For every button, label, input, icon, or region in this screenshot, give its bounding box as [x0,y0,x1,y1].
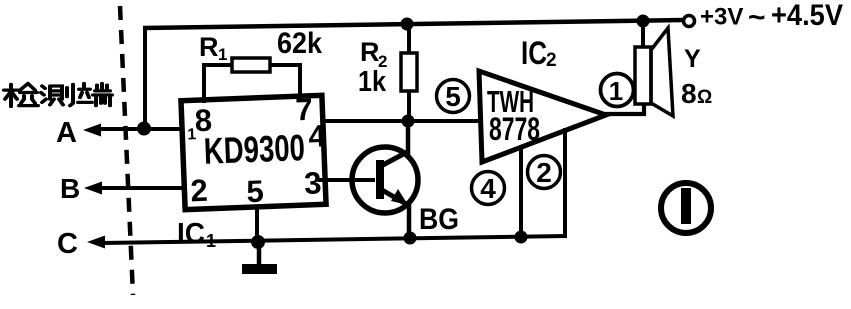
svg-text:4: 4 [308,118,327,154]
端 [78,84,92,103]
label 8 ohm [681,78,712,109]
IC U1 KD9300 body [181,91,329,211]
svg-text:62k: 62k [277,27,322,60]
pin label circled 1 (amp output) [601,74,634,107]
svg-text:+3V: +3V [700,4,743,31]
svg-text:1k: 1k [358,66,387,98]
svg-text:5: 5 [445,81,461,112]
svg-text:Y: Y [684,45,701,73]
svg-text:~: ~ [748,1,766,34]
svg-text:2: 2 [190,173,209,209]
IC1 pin 5 wire to ground rail [255,206,259,242]
svg-text:KD9300: KD9300 [203,127,305,172]
pin label circled 4 [472,172,505,205]
node A (terminal arrow + label) [56,117,183,149]
svg-text:IC: IC [521,35,547,71]
wire V+ supply rail [143,20,684,28]
svg-text:8: 8 [194,103,213,139]
svg-text:2: 2 [546,50,557,71]
svg-text:R: R [360,37,380,67]
resistor R1 (62k) [204,58,300,103]
transistor Q1 BG [318,121,418,240]
resistor R2 (1k) [401,24,417,121]
label IC2 [521,35,557,71]
speaker Y [635,20,673,116]
op-amp IC2 TWH8778 triangle [479,71,606,162]
label R1 [199,32,227,64]
svg-text:A: A [56,117,77,149]
svg-text:3: 3 [304,165,323,201]
power terminal [684,0,844,34]
wire amp pin 2 to ground rail [563,128,567,238]
amp output wire to speaker [605,104,644,114]
label 检测端 [4,84,112,107]
node C (terminal arrow + label) [57,228,105,260]
svg-text:2: 2 [536,157,552,188]
测 [41,86,46,102]
junction speaker on supply rail [637,15,650,28]
svg-text:4: 4 [480,173,496,204]
junction pin5/rail [251,235,265,249]
svg-text:1: 1 [187,126,197,143]
dashed detection boundary line [120,6,133,295]
figure number circled 1 [661,183,711,233]
label R2 [360,37,387,71]
检 [4,84,18,106]
svg-text:Ω: Ω [697,87,712,108]
svg-text:8778: 8778 [489,111,540,147]
svg-text:IC: IC [177,218,205,250]
label IC1 [177,218,216,251]
svg-text:5: 5 [246,174,265,210]
amp pin 4 wire to ground rail [519,147,523,238]
wire V+ riser to node A [143,26,147,129]
junction amp pin4/rail [515,231,528,244]
wire ground rail (node C) [102,236,567,243]
pin label circled 5 (amp input) [437,80,470,113]
junction node A/riser [137,122,151,136]
ground [242,241,277,274]
junction R2 top on rail [401,18,414,31]
svg-text:BG: BG [419,203,459,236]
svg-text:C: C [57,228,78,260]
pin label circled 2 [528,156,561,189]
svg-text:8: 8 [681,78,697,109]
svg-text:1: 1 [206,231,216,251]
svg-text:+4.5V: +4.5V [771,0,843,32]
svg-text:B: B [60,173,80,204]
svg-text:1: 1 [218,45,227,64]
junction R2 bottom / pin4 wire / collector [402,115,415,128]
svg-text:R: R [199,32,219,62]
wire IC1 pin 4 to amplifier input [321,119,480,123]
junction emitter on rail [404,232,417,245]
node B (terminal arrow + label) [60,173,183,204]
svg-text:1: 1 [609,76,623,106]
